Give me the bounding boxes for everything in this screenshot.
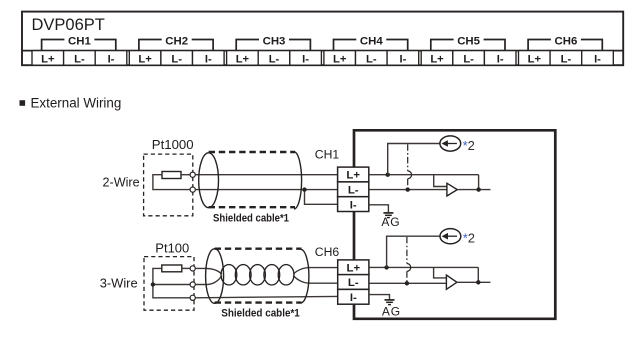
- svg-text:I-: I-: [350, 199, 357, 211]
- terminal cell CH4 L-: [356, 51, 388, 66]
- shielded cable 2 right arc: [301, 249, 309, 303]
- terminal circle c2: [190, 295, 195, 300]
- terminal cell CH3 L+: [227, 51, 259, 66]
- op-amp feedback step (top): [434, 175, 447, 187]
- terminal cell CH4 L+: [324, 51, 356, 66]
- bracket CH6: [528, 40, 602, 51]
- resistor RTD element (Pt100): [162, 265, 182, 272]
- svg-text:*2: *2: [463, 138, 475, 153]
- svg-text:L-: L-: [269, 53, 280, 65]
- wire resistor left to terminals b2 c2: [153, 268, 190, 297]
- terminal cell CH1 I-: [95, 51, 127, 66]
- wire feedback down (top): [478, 175, 480, 190]
- shielded cable 2 left ellipse: [206, 249, 224, 304]
- dash-dot hop over L+ wire: [408, 171, 412, 179]
- svg-text:L+: L+: [138, 53, 152, 65]
- terminal circle b: [190, 187, 195, 192]
- bracket CH4: [334, 40, 408, 51]
- terminal cell CH1 L+: [32, 51, 64, 66]
- wire L+ sensor to CH1: [195, 174, 337, 176]
- svg-text:L-: L-: [348, 277, 359, 289]
- ground AG (top): [383, 213, 393, 218]
- wire L+ CH1 to feedback corner: [369, 174, 479, 176]
- current source U2 ellipse: [440, 229, 461, 244]
- bracket CH3: [236, 40, 310, 51]
- svg-text:Shielded cable*1: Shielded cable*1: [213, 212, 289, 224]
- svg-text:AG: AG: [382, 305, 401, 319]
- wire resistor to terminal a: [181, 174, 190, 176]
- svg-text:External Wiring: External Wiring: [31, 95, 122, 110]
- terminal cell CH2 L-: [161, 51, 193, 66]
- svg-text:DVP06PT: DVP06PT: [32, 16, 105, 34]
- svg-text:I-: I-: [108, 53, 115, 65]
- sensor Pt1000 dashed box: [144, 154, 193, 216]
- svg-text:I-: I-: [302, 53, 309, 65]
- current source U2 arrow: [447, 235, 457, 237]
- shielded cable 2 top dashed line: [215, 247, 302, 249]
- CH1 terminal box I-: [338, 197, 369, 212]
- wire op-amp output (top): [457, 189, 490, 191]
- svg-text:L-: L-: [366, 53, 377, 65]
- svg-text:L+: L+: [346, 170, 360, 182]
- junction L- dash-dot: [406, 187, 410, 191]
- svg-text:CH6: CH6: [555, 35, 578, 47]
- bullet square: [20, 100, 26, 106]
- op-amp feedback step (bottom): [434, 267, 447, 278]
- svg-text:I-: I-: [205, 53, 212, 65]
- wire resistor left loop to terminal b: [153, 175, 190, 190]
- wire resistor to terminal a2: [182, 267, 190, 269]
- junction L+ excitation 2: [384, 265, 388, 269]
- CH6 terminal box L+: [338, 260, 369, 275]
- bracket CH5: [431, 40, 505, 51]
- terminal cell CH2 L+: [129, 51, 161, 66]
- module box: [354, 130, 555, 318]
- svg-text:I-: I-: [399, 53, 406, 65]
- junction output (bottom): [476, 280, 480, 284]
- shielded cable 2 bottom dashed line: [215, 301, 302, 303]
- junction L+ excitation: [386, 173, 390, 177]
- junction L- dash-dot 2: [405, 281, 409, 285]
- shielded cable 1 left ellipse: [199, 153, 219, 208]
- wire L+ CH6 to feedback corner: [369, 266, 478, 268]
- svg-text:L+: L+: [346, 263, 360, 275]
- svg-text:L+: L+: [430, 53, 444, 65]
- twisted coil loops: [221, 265, 237, 285]
- wire pair into coil left: [195, 268, 222, 274]
- terminal cell CH5 L-: [453, 51, 485, 66]
- svg-text:3-Wire: 3-Wire: [100, 276, 138, 291]
- op-amp A2 triangle: [446, 275, 457, 289]
- shielded cable 1 top dashed line: [209, 151, 295, 153]
- terminal cell CH5 I-: [484, 51, 516, 66]
- terminal cell CH3 L-: [258, 51, 290, 66]
- CH6 terminal box I-: [338, 289, 369, 304]
- resistor RTD element (Pt1000): [162, 172, 181, 179]
- svg-text:L+: L+: [41, 53, 55, 65]
- svg-text:*2: *2: [463, 231, 475, 246]
- wire op-amp output (bottom): [457, 281, 491, 283]
- terminal cell CH6 L+: [519, 51, 551, 66]
- svg-text:CH1: CH1: [315, 147, 340, 161]
- svg-text:Shielded cable*1: Shielded cable*1: [221, 308, 299, 320]
- svg-text:Pt1000: Pt1000: [152, 137, 194, 152]
- op-amp A1 triangle: [447, 183, 457, 196]
- svg-text:L-: L-: [463, 53, 474, 65]
- bracket CH1: [42, 40, 116, 51]
- svg-text:Pt100: Pt100: [155, 240, 189, 255]
- terminal cell CH6 L-: [550, 51, 582, 66]
- svg-text:CH1: CH1: [68, 35, 91, 47]
- isolation dash-dot line (bottom): [406, 237, 408, 283]
- dash-dot hop over L+ wire 2: [407, 264, 411, 272]
- svg-text:CH6: CH6: [315, 245, 340, 259]
- CH1 terminal box L-: [338, 182, 369, 197]
- junction L-/I- branch: [302, 187, 306, 191]
- wire feedback down (bottom): [477, 267, 479, 282]
- svg-text:2-Wire: 2-Wire: [103, 176, 140, 190]
- wire L- sensor to CH1: [195, 189, 337, 191]
- wire I- sensor to CH6 (passes under coil): [195, 296, 337, 297]
- current source U1 arrow: [447, 143, 457, 145]
- svg-text:I-: I-: [350, 292, 357, 304]
- svg-text:CH5: CH5: [457, 35, 480, 47]
- shielded cable 1 bottom dashed line: [209, 206, 295, 208]
- wire pair out of coil right: [293, 268, 338, 274]
- svg-text:L+: L+: [333, 53, 347, 65]
- terminal circle b2: [190, 282, 195, 287]
- svg-text:L-: L-: [74, 53, 85, 65]
- svg-text:I-: I-: [497, 53, 504, 65]
- isolation dash-dot line (top): [407, 144, 409, 189]
- svg-text:L+: L+: [236, 53, 250, 65]
- terminal circle a2: [190, 266, 195, 271]
- terminal row top line: [22, 50, 623, 52]
- svg-text:L-: L-: [171, 53, 182, 65]
- sensor Pt100 dashed box: [144, 257, 194, 311]
- svg-text:L-: L-: [561, 53, 572, 65]
- wire L- CH1 to op-amp: [369, 189, 447, 191]
- junction sensor left: [151, 282, 155, 286]
- terminal cell CH2 I-: [193, 51, 225, 66]
- CH1 terminal box L+: [338, 167, 369, 182]
- svg-text:AG: AG: [381, 215, 400, 229]
- current source U1 ellipse: [440, 136, 461, 151]
- wire I- to AG (bottom): [369, 295, 390, 300]
- wire L+ up to current source 2: [387, 236, 440, 267]
- wire L+ up to current source: [388, 144, 440, 175]
- terminal cell CH4 I-: [387, 51, 419, 66]
- terminal cell CH5 L+: [421, 51, 453, 66]
- svg-text:L+: L+: [528, 53, 542, 65]
- CH6 terminal box L-: [338, 275, 369, 290]
- terminal cell CH1 L-: [64, 51, 96, 66]
- ground AG (bottom): [385, 300, 395, 305]
- wire I- to AG (top): [369, 205, 389, 213]
- bracket CH2: [139, 40, 213, 51]
- junction output (top): [476, 187, 480, 191]
- terminal circle a: [190, 172, 195, 177]
- wire L- CH6 to op-amp: [369, 282, 447, 284]
- svg-text:CH4: CH4: [360, 35, 383, 47]
- svg-text:L-: L-: [348, 185, 359, 197]
- terminal cell CH6 I-: [582, 51, 614, 66]
- terminal cell CH3 I-: [290, 51, 322, 66]
- svg-text:I-: I-: [594, 53, 601, 65]
- shielded cable 1 right arc: [294, 152, 302, 209]
- wire branch L- to I-: [305, 190, 338, 205]
- terminal strip outer box DVP06PT: [22, 12, 623, 66]
- svg-text:CH3: CH3: [263, 35, 286, 47]
- svg-text:CH2: CH2: [165, 35, 188, 47]
